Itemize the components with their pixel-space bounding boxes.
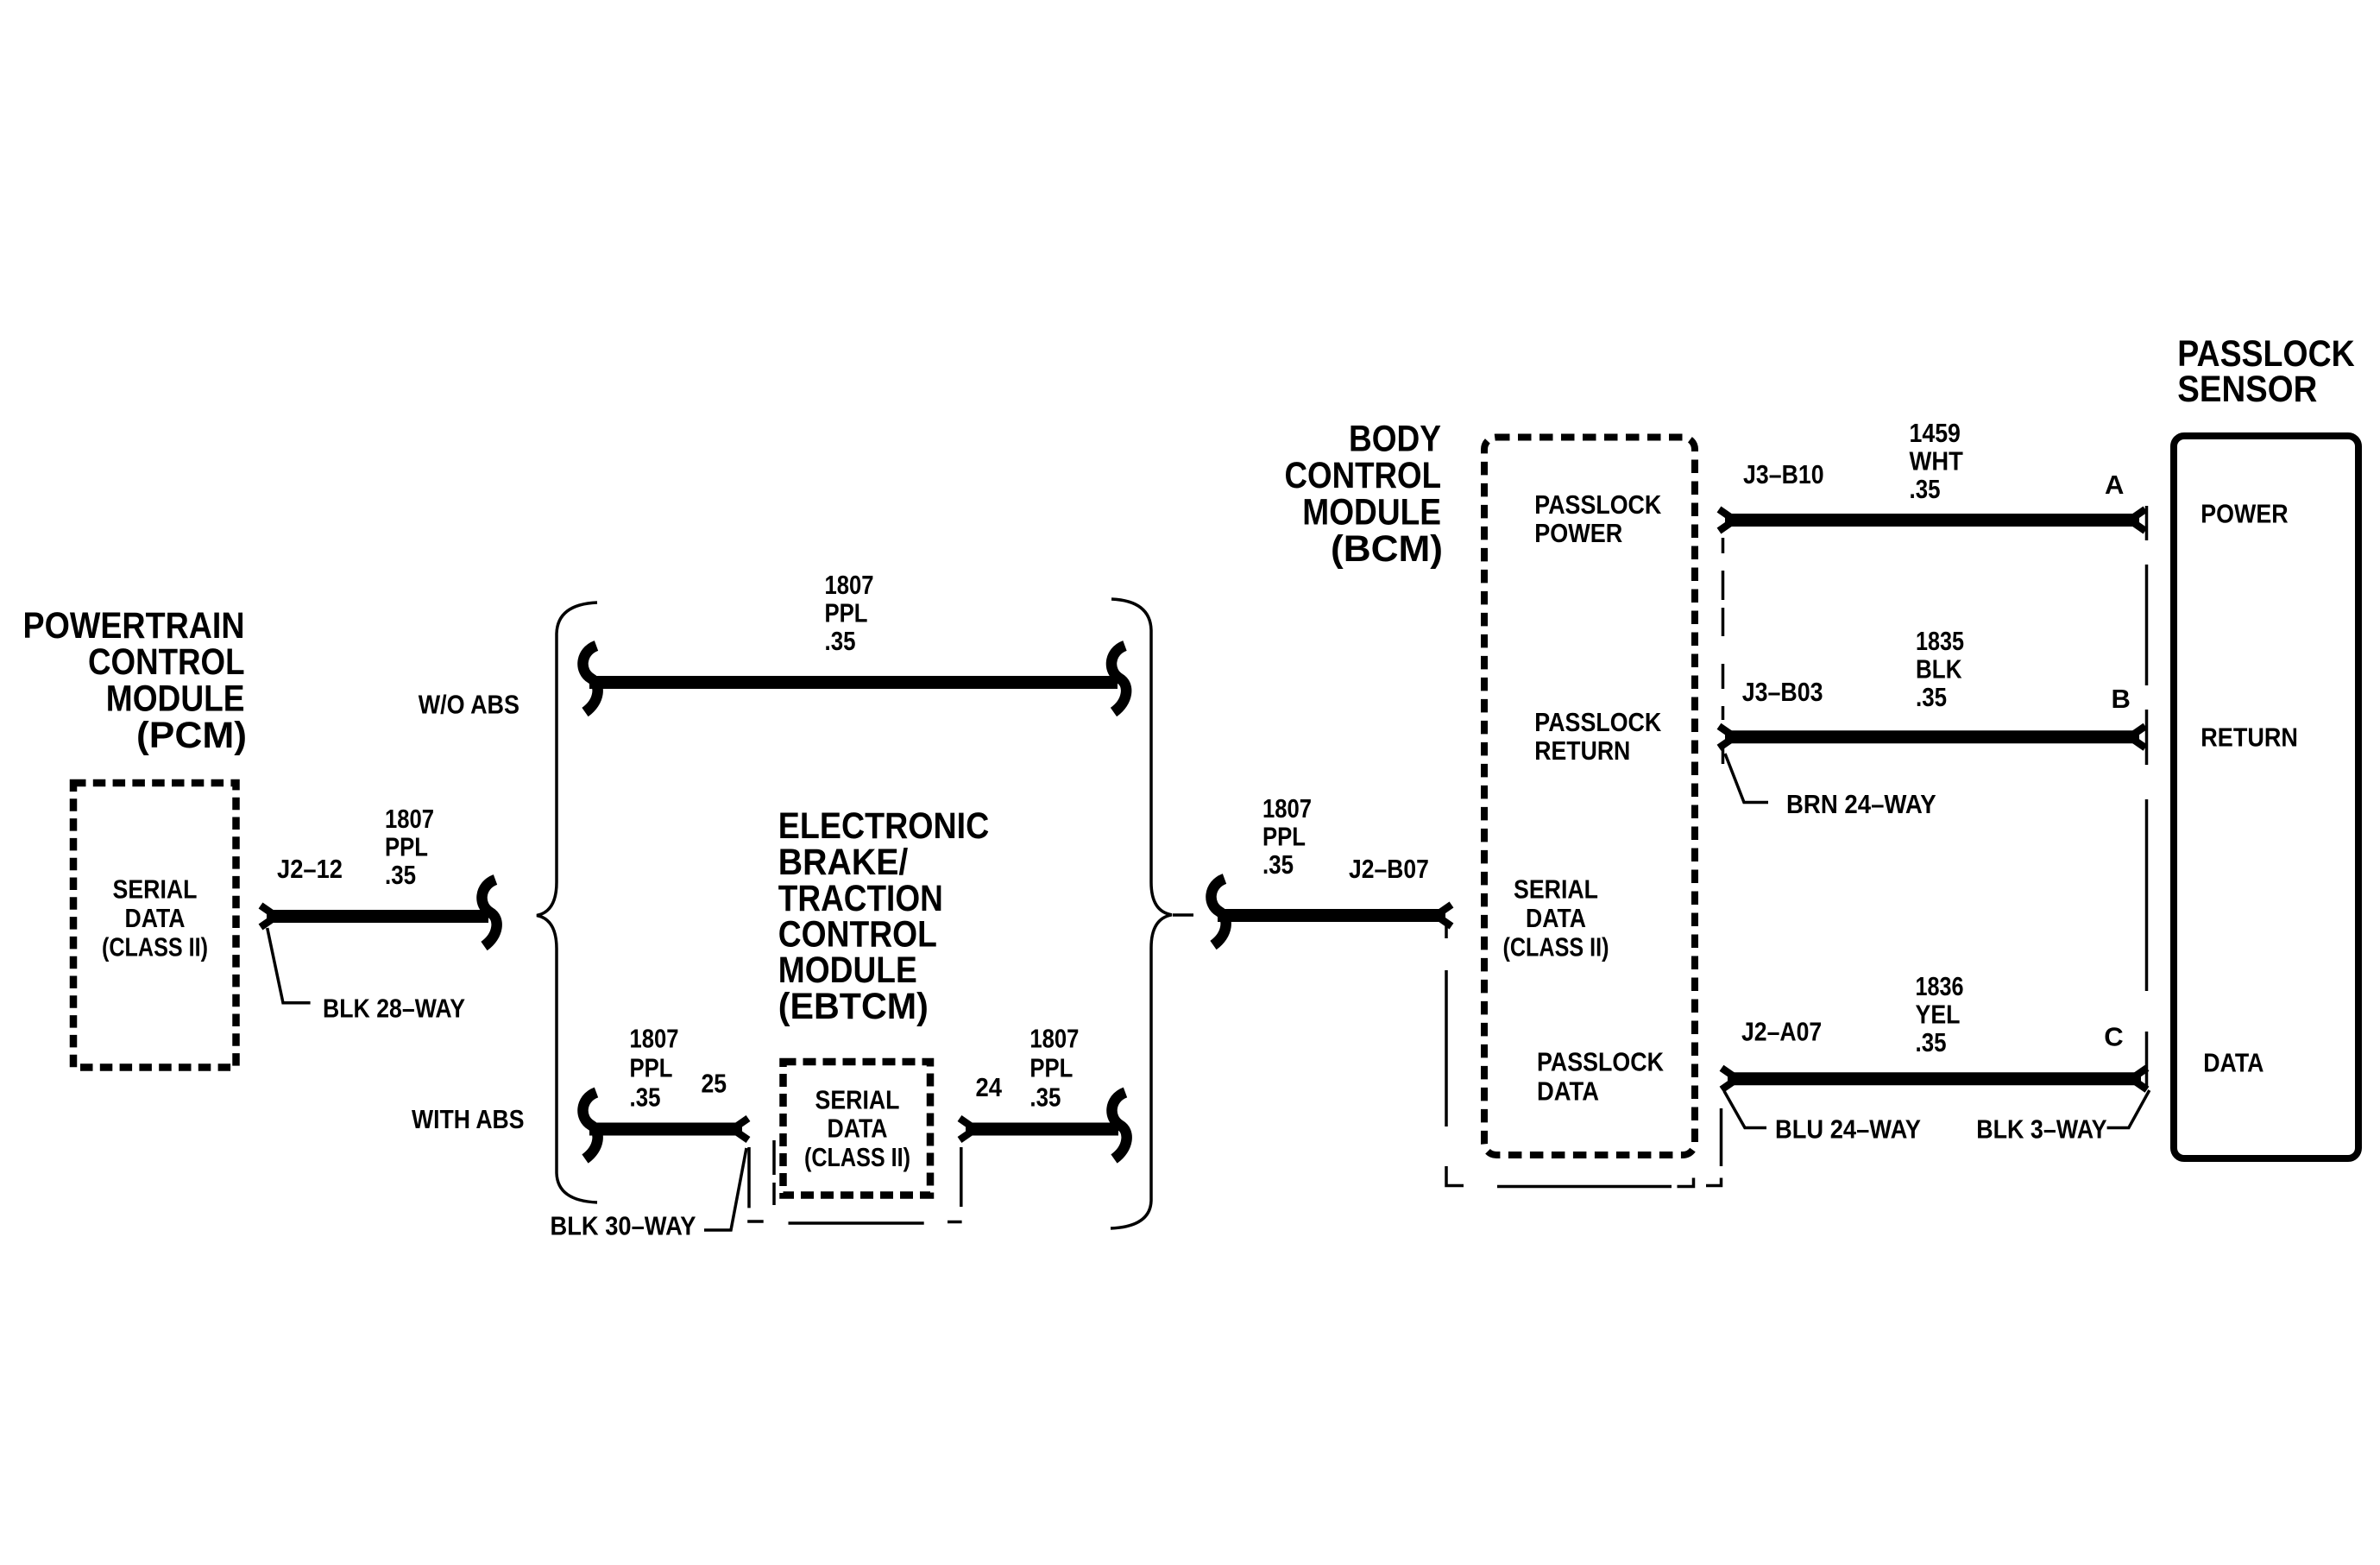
svg-text:CONTROL: CONTROL	[778, 914, 937, 955]
svg-text:(CLASS II): (CLASS II)	[1503, 932, 1609, 962]
module label PCM (POWERTRAIN CONTROL MODULE)	[23, 605, 248, 755]
wire PASSLOCK POWER J3-B10 to sensor A	[1719, 509, 2145, 531]
svg-text:BLK: BLK	[1916, 654, 1962, 685]
svg-text:1807: 1807	[1029, 1024, 1079, 1054]
svg-text:SERIAL: SERIAL	[113, 874, 198, 905]
svg-text:J2–A07: J2–A07	[1741, 1017, 1822, 1047]
svg-text:1459: 1459	[1910, 418, 1961, 448]
J2 connector bracket below BCM	[1446, 924, 1722, 1187]
svg-text:WITH ABS: WITH ABS	[412, 1104, 525, 1134]
wire splice to BCM J2-B07	[1218, 905, 1451, 926]
module label BCM (BODY CONTROL MODULE)	[1285, 418, 1444, 569]
in-line connector S left of WITH ABS wire	[582, 1093, 597, 1159]
EBTCM dashed box (SERIAL DATA node)	[784, 1062, 931, 1196]
svg-text:CONTROL: CONTROL	[88, 641, 245, 682]
in-line connector S on PCM wire	[482, 880, 496, 946]
svg-text:25: 25	[702, 1069, 727, 1099]
svg-text:(EBTCM): (EBTCM)	[778, 986, 929, 1026]
svg-text:POWER: POWER	[2201, 499, 2288, 529]
in-line connector S on BCM wire	[1211, 879, 1225, 945]
svg-text:.35: .35	[1910, 474, 1941, 504]
svg-text:(CLASS II): (CLASS II)	[102, 932, 208, 962]
node SERIAL DATA (CLASS II) in EBTCM	[804, 1084, 910, 1172]
BRN 24-WAY connector face dashes	[1722, 538, 1725, 764]
module label PASSLOCK SENSOR	[2177, 333, 2355, 409]
svg-text:SERIAL: SERIAL	[1514, 874, 1598, 905]
svg-text:ELECTRONIC: ELECTRONIC	[778, 805, 990, 846]
wire W/O ABS branch	[589, 676, 1118, 689]
svg-text:W/O ABS: W/O ABS	[419, 690, 519, 720]
svg-text:BLK 3–WAY: BLK 3–WAY	[1976, 1114, 2107, 1145]
svg-text:J2–B07: J2–B07	[1349, 854, 1429, 884]
EBTCM connector bracket below box	[747, 1140, 961, 1223]
PASSLOCK SENSOR box	[2174, 436, 2358, 1158]
svg-text:PASSLOCK: PASSLOCK	[1534, 707, 1662, 737]
module label EBTCM (ELECTRONIC BRAKE/TRACTION CONTROL MODULE)	[778, 805, 990, 1026]
wire PASSLOCK DATA J2-A07 to sensor C	[1722, 1068, 2147, 1089]
svg-text:DATA: DATA	[1526, 903, 1586, 933]
BCM dashed box	[1484, 438, 1695, 1156]
svg-text:POWERTRAIN: POWERTRAIN	[23, 605, 245, 646]
svg-text:BLK 28–WAY: BLK 28–WAY	[323, 994, 465, 1024]
svg-text:WHT: WHT	[1910, 446, 1963, 476]
in-line connector S right of W/O ABS wire	[1111, 646, 1126, 712]
svg-text:RETURN: RETURN	[2201, 723, 2298, 753]
wire label 1835 BLK .35	[1916, 626, 1964, 712]
svg-text:DATA: DATA	[2203, 1048, 2264, 1078]
node SERIAL DATA (CLASS II) in BCM	[1503, 874, 1609, 962]
BLK 3-WAY connector face line	[2145, 506, 2149, 1086]
svg-text:1835: 1835	[1916, 626, 1964, 656]
svg-text:SENSOR: SENSOR	[2177, 369, 2317, 409]
svg-text:BODY: BODY	[1349, 418, 1441, 458]
svg-text:.35: .35	[1916, 682, 1947, 712]
wire label 1459 WHT .35	[1910, 418, 1963, 504]
svg-text:J3–B03: J3–B03	[1742, 677, 1823, 707]
svg-text:(PCM): (PCM)	[136, 715, 247, 755]
svg-text:TRACTION: TRACTION	[778, 878, 943, 918]
svg-text:.35: .35	[825, 626, 856, 656]
in-line connector S left of W/O ABS wire	[582, 646, 597, 712]
svg-text:BRAKE/: BRAKE/	[778, 842, 909, 882]
svg-text:PPL: PPL	[1262, 822, 1306, 852]
svg-text:DATA: DATA	[828, 1114, 888, 1144]
wire PCM J2-12 serial data	[261, 906, 488, 927]
svg-text:.35: .35	[1916, 1027, 1947, 1057]
svg-text:DATA: DATA	[1537, 1076, 1599, 1107]
svg-text:BRN 24–WAY: BRN 24–WAY	[1786, 789, 1936, 819]
wire label 1807 PPL .35 (PCM to splice)	[385, 804, 434, 890]
svg-text:A: A	[2105, 470, 2124, 500]
svg-text:C: C	[2104, 1022, 2123, 1052]
wire label 1836 YEL .35	[1916, 971, 1964, 1057]
node SERIAL DATA (CLASS II) in PCM	[102, 874, 208, 962]
svg-text:B: B	[2112, 684, 2131, 714]
wire WITH ABS to EBTCM pin 25	[589, 1119, 748, 1140]
svg-text:.35: .35	[385, 860, 416, 890]
wire label 1807 PPL .35 (WITH ABS left)	[630, 1024, 679, 1113]
wire label 1807 PPL .35 (WITH ABS right)	[1029, 1024, 1079, 1113]
node PASSLOCK POWER	[1534, 489, 1662, 548]
pointer and label BLK 28-WAY	[268, 928, 466, 1024]
svg-text:MODULE: MODULE	[778, 950, 917, 990]
svg-text:PPL: PPL	[1029, 1053, 1073, 1083]
stub from brace point	[1173, 913, 1193, 917]
pointer and label BLK 3-WAY	[1976, 1090, 2150, 1145]
svg-text:1836: 1836	[1916, 971, 1964, 1001]
svg-text:(CLASS II): (CLASS II)	[804, 1142, 910, 1172]
svg-text:.35: .35	[630, 1082, 661, 1113]
pointer and label BRN 24-WAY	[1725, 754, 1936, 819]
svg-text:24: 24	[976, 1072, 1003, 1102]
svg-text:J2–12: J2–12	[277, 854, 343, 884]
svg-text:POWER: POWER	[1534, 518, 1622, 548]
brace closing right (branch merge)	[1111, 599, 1172, 1228]
wire label 1807 PPL .35 (W/O ABS branch)	[825, 570, 874, 656]
svg-text:1807: 1807	[1262, 793, 1312, 824]
pointer and label BLK 30-WAY	[551, 1148, 747, 1240]
svg-text:BLK 30–WAY: BLK 30–WAY	[551, 1210, 696, 1240]
wire PASSLOCK RETURN J3-B03 to sensor B	[1719, 726, 2145, 748]
in-line connector S right of pin-24 wire	[1111, 1093, 1126, 1159]
svg-text:YEL: YEL	[1916, 1000, 1961, 1030]
svg-text:CONTROL: CONTROL	[1285, 455, 1442, 495]
svg-text:1807: 1807	[630, 1024, 679, 1054]
svg-text:J3–B10: J3–B10	[1743, 459, 1824, 489]
svg-text:PPL: PPL	[385, 832, 428, 862]
svg-text:SERIAL: SERIAL	[815, 1084, 900, 1114]
brace opening left (branch split)	[537, 603, 597, 1202]
svg-text:PPL: PPL	[630, 1053, 673, 1083]
pointer and label BLU 24-WAY	[1724, 1091, 1921, 1145]
svg-text:BLU 24–WAY: BLU 24–WAY	[1775, 1114, 1921, 1145]
svg-text:PASSLOCK: PASSLOCK	[1534, 489, 1662, 520]
wire label 1807 PPL .35 (splice to BCM)	[1262, 793, 1312, 880]
svg-text:.35: .35	[1029, 1082, 1061, 1113]
svg-text:RETURN: RETURN	[1534, 735, 1630, 766]
svg-text:1807: 1807	[825, 570, 874, 600]
svg-text:MODULE: MODULE	[1302, 491, 1441, 532]
PCM dashed box (SERIAL DATA node)	[73, 783, 236, 1068]
node PASSLOCK RETURN	[1534, 707, 1662, 766]
svg-text:PPL: PPL	[825, 598, 868, 628]
svg-text:DATA: DATA	[125, 903, 186, 933]
svg-text:.35: .35	[1262, 849, 1294, 880]
svg-text:1807: 1807	[385, 804, 434, 834]
node PASSLOCK DATA	[1537, 1047, 1665, 1107]
wire EBTCM pin 24 to splice	[960, 1119, 1118, 1140]
svg-text:PASSLOCK: PASSLOCK	[1537, 1047, 1665, 1077]
svg-text:MODULE: MODULE	[106, 678, 245, 719]
svg-text:(BCM): (BCM)	[1331, 528, 1443, 569]
svg-text:PASSLOCK: PASSLOCK	[2177, 333, 2355, 374]
